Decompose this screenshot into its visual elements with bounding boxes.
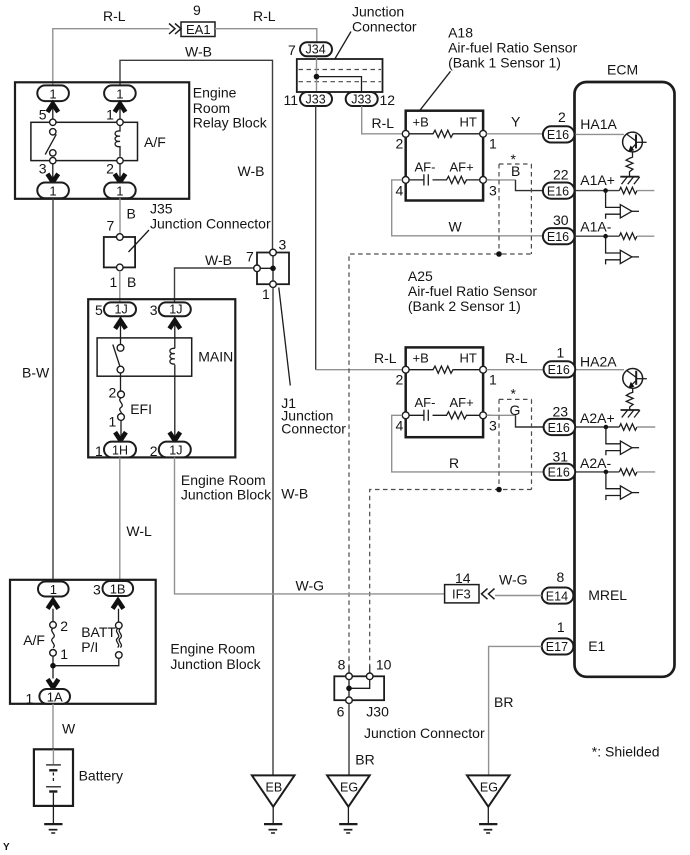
svg-text:AF-: AF- [415,160,436,175]
connector oval E17 pin 1 [542,638,574,654]
connector oval 1 (relay block top left) [37,85,69,101]
svg-text:E16: E16 [547,230,569,244]
label W battery wire [62,721,76,737]
svg-text:EFI: EFI [130,401,152,417]
svg-text:1: 1 [116,86,123,101]
J1 pin 3 [270,237,287,256]
svg-text:3: 3 [489,418,497,434]
svg-text:HT: HT [460,115,477,130]
connector oval 1J pin 5 [104,302,136,316]
wire stub oval1 to relay [52,101,54,122]
A18 AF+ label [450,160,474,175]
relay A/F value label [144,134,166,150]
J1 pin 7 [246,249,260,272]
J1 pin 1 [262,281,276,302]
svg-text:7: 7 [246,249,254,265]
pin 5 label [39,107,47,123]
wire from node to J33 pin 12 [317,77,362,92]
engine room junction block (bottom) outline [10,580,156,704]
leader line from J1 box to label [279,288,291,386]
pin 14 label of IF3 [455,570,471,586]
label HA1A [580,116,617,132]
fuse EFI [118,391,125,420]
resistor A2A+ [619,424,655,431]
arrow up pin 1 [115,104,126,112]
connector oval J34 [300,42,332,56]
resistor A1A+ [619,187,654,194]
fuse EFI label [130,401,152,417]
wire stub MAIN coil to 1J2 [174,365,176,442]
svg-text:P/I: P/I [81,639,98,655]
wire stub relay switch to bottom oval [52,161,54,183]
pin 3 label of 1B [93,582,101,598]
svg-text:1J: 1J [115,303,128,317]
relay A/F switch [45,119,56,164]
junction connector J1 box [257,253,289,285]
engine room junction block (middle) outline [88,299,235,457]
svg-text:E1: E1 [588,638,605,654]
svg-text:*: * [511,151,517,167]
ground triangle EB [252,775,295,806]
arrow down pin 2 [115,174,126,182]
connector oval 1B pin 3 [103,581,134,596]
svg-text:8: 8 [557,569,565,585]
svg-text:W-L: W-L [126,523,152,539]
svg-text:1H: 1H [112,444,128,458]
J30 pin 6 [337,697,353,720]
wire W from 1A to battery [52,704,54,750]
A25 sensor label [408,268,538,314]
svg-text:6: 6 [337,704,345,720]
arrow down above 1H [115,432,126,440]
battery label [79,768,123,784]
svg-text:J33: J33 [306,92,326,106]
op-amp A2A+ [606,427,639,455]
svg-text:4: 4 [396,183,404,199]
J35 pin 7 [107,218,124,241]
A25 AF- label [415,395,436,410]
arrow up below oval 1B [113,601,124,609]
connector IF3 with pin 14 [445,585,479,603]
svg-text:1: 1 [557,619,565,635]
svg-text:A18: A18 [448,25,473,41]
svg-text:EG: EG [480,781,498,795]
A18 AF- label [415,160,436,175]
wire stub 1J5 to MAIN [120,316,122,344]
svg-text:7: 7 [107,218,115,234]
engine room relay block outline [15,82,189,199]
svg-text:HA1A: HA1A [580,116,617,132]
wire W from A18 pin 4 to ECM A1A- [392,180,543,236]
fusible link BATT P/I label [81,624,116,655]
connector arrows at IF3 [482,589,495,600]
svg-text:1: 1 [489,372,497,388]
A18 pin 1 [480,130,497,151]
svg-text:J33: J33 [351,92,371,106]
svg-text:BR: BR [355,752,374,768]
A18 +B label [413,115,429,130]
svg-text:Y: Y [511,114,521,130]
label Engine Room Junction Block (bottom) [170,641,261,673]
svg-text:AF-: AF- [415,395,436,410]
A/F fuse pin 1 label [60,646,68,662]
pin 5 label [95,302,103,318]
svg-text:3: 3 [93,582,101,598]
svg-text:1: 1 [109,414,117,430]
wire A1A+ inside ECM with node [575,188,620,193]
svg-text:E16: E16 [547,184,569,198]
junction connector J34/J33 label [352,4,417,35]
connector oval 1 (bottom block top left) [38,582,69,597]
J30 label [366,704,389,720]
pin 8 number [557,569,565,585]
svg-text:Battery: Battery [79,768,123,784]
ground symbol below EG right [479,807,497,833]
pin 9 label of EA1 [193,2,201,18]
svg-text:E16: E16 [548,466,570,480]
svg-text:5: 5 [39,107,47,123]
svg-text:+B: +B [413,351,429,366]
pin 31 number [553,449,569,465]
wire G from A25 pin 3 to ECM A2A+ [487,415,544,427]
wire B-W from relay block to bottom junction block [52,198,54,581]
svg-text:11: 11 [284,92,299,108]
transistor HA2A [623,369,647,389]
svg-text:1: 1 [60,646,68,662]
svg-text:R-L: R-L [374,350,397,366]
relay MAIN switch [113,344,124,373]
arrow up below oval 1 [48,601,59,609]
junction node in J34 box [314,74,320,80]
pin 11 label [284,92,299,108]
resistor HA2A to ground [626,388,633,410]
battery cell symbol [46,749,61,806]
svg-text:E16: E16 [548,421,570,435]
A/F fuse pin 2 label [60,618,68,634]
label G shielded [510,402,521,418]
svg-text:R: R [449,455,459,471]
connector oval 1J pin 2 [159,442,191,458]
label B below J35 [127,274,136,290]
svg-text:3: 3 [39,161,47,177]
label W-B at J1 [205,252,232,268]
svg-text:EG: EG [340,781,358,795]
svg-text:Air-fuel Ratio Sensor: Air-fuel Ratio Sensor [448,40,578,56]
svg-text:IF3: IF3 [452,587,471,602]
J30 pin 8 [338,657,353,680]
relay MAIN box [97,338,192,376]
label B-W [22,365,50,381]
label MREL [588,587,627,603]
svg-text:E14: E14 [546,589,568,603]
resistor A1A- [619,233,654,240]
label R-L at HA2A [505,350,528,366]
label R-L at A18 input [372,115,395,131]
wire W-L from 1H to bottom junction block [119,457,121,581]
svg-text:Junction Connector: Junction Connector [150,216,271,232]
svg-text:4: 4 [396,418,404,434]
svg-text:3: 3 [279,237,287,253]
label W-B lower [281,486,308,502]
pin 7 label of J34 [288,42,296,58]
J1 internal wiring [257,253,273,285]
svg-text:W: W [449,219,463,235]
wire stub 1J3 to MAIN coil [174,316,176,348]
svg-text:BATT: BATT [81,624,116,640]
connector oval 1 (relay block top right) [104,85,136,101]
pin 23 number [553,404,569,420]
junction node in bottom block [50,663,56,669]
connector oval E16 pin 30 [543,228,575,244]
connector oval E16 pin 23 [544,419,576,435]
note shielded [592,744,660,760]
A25 pin 4 [396,412,410,434]
connector oval E16 pin 31 [544,464,576,480]
junction connector J35 box [104,237,135,267]
leader line to junction connector box [335,32,351,60]
label Y [511,114,521,130]
wire W-B from relay block pin 1 to junction connector J1 pin 3 [120,60,273,249]
label B shielded [511,163,520,179]
svg-text:HA2A: HA2A [580,354,617,370]
J1 label [281,395,346,437]
svg-text:R-L: R-L [103,8,126,24]
label R-L at A25 input [374,350,397,366]
leader line to J35 [129,230,150,252]
wire from J33 pin 11 down to A25 pin 2 [316,106,403,370]
svg-text:W-B: W-B [238,163,265,179]
relay A/F inner box [31,122,138,160]
svg-text:J35: J35 [150,201,173,217]
pin 2 label of 1J [150,443,158,459]
wire W-B from junction block 1J to J1 pin 7 [175,268,254,302]
A18 pin 2 [396,130,410,151]
connector oval 1H pin 1 [104,442,136,458]
A25 pin 3 [480,412,497,434]
junction connector J35 label [150,201,271,232]
wire BR from ECM E1 to ground EG right [489,646,542,775]
fuse A/F label [23,632,45,648]
relay MAIN coil [170,348,175,364]
connector arrows into EA1 [169,24,181,35]
label W-G right [499,572,528,588]
label Engine Room Junction Block (middle) [181,472,272,503]
svg-text:R-L: R-L [372,115,395,131]
svg-text:31: 31 [553,449,569,465]
svg-text:A/F: A/F [144,134,166,150]
pin 2 number [558,109,566,125]
wire stub EFI to 1H [120,420,122,441]
svg-text:A1A+: A1A+ [580,172,615,188]
EFI pin 1 label [109,414,117,430]
op-amp A1A+ [606,191,639,219]
resistor A2A- [619,469,655,476]
svg-text:W-B: W-B [205,252,232,268]
svg-text:30: 30 [553,212,569,228]
wire HA2A inside ECM [575,369,625,371]
label B above J35 [127,206,136,222]
arrow up below 1J5 [115,321,126,329]
svg-text:1A: 1A [47,689,63,704]
svg-text:W-B: W-B [185,44,212,60]
svg-text:7: 7 [288,42,296,58]
svg-text:1: 1 [106,107,114,123]
pin 1 number of E17 [557,619,565,635]
svg-text:J34: J34 [306,43,326,57]
svg-text:A2A-: A2A- [580,455,611,471]
svg-text:B-W: B-W [22,365,50,381]
arrow down above 1J2 [169,432,180,440]
svg-text:Junction Block: Junction Block [170,656,261,672]
J30 pin 10 [366,657,391,680]
svg-text:1: 1 [110,274,118,290]
pin 1 label of 1A [26,691,34,707]
pin 22 number [553,167,569,183]
label W-B top [185,44,212,60]
svg-text:Y: Y [3,842,10,853]
label BR at J30 [355,752,374,768]
transistor HA1A [623,132,647,152]
wire B from relay block to J35 [119,198,121,234]
wire HA1A inside ECM [575,133,625,135]
svg-text:1: 1 [49,86,56,101]
svg-text:1J: 1J [169,303,182,317]
pin 1 label of 1H [95,443,103,459]
svg-text:10: 10 [376,657,392,673]
wire stub A/F fuse column [52,609,54,679]
pin 12 label [380,92,396,108]
arrow down above 1A [48,679,59,687]
svg-text:Connector: Connector [281,421,346,437]
resistor HA1A to ground [626,152,633,177]
connector oval E14 pin 8 [542,588,574,604]
label A2A- [580,455,611,471]
A18 sensor capacitor and AF+ resistor row [409,174,491,185]
page marker Y [3,842,10,853]
ground triangle EG (right) [467,775,510,806]
ground below battery [44,806,62,833]
connector oval 1 (relay block bottom right) [104,183,136,199]
svg-text:Connector: Connector [352,19,417,35]
A18 sensor label [448,25,578,71]
label W-B vertical run [238,163,265,179]
svg-text:HT: HT [460,351,477,366]
A25 sensor capacitor and AF+ resistor row [409,410,491,421]
svg-text:R-L: R-L [253,8,276,24]
shield dashed box A25 [499,399,532,489]
arrow down pin 3 [47,174,58,182]
svg-text:G: G [510,402,521,418]
svg-text:Engine: Engine [193,85,237,101]
wire R from A25 pin 4 to ECM A2A- [392,415,544,472]
ECM box [575,82,675,677]
svg-text:2: 2 [396,372,404,388]
fusible link BATT P/I [116,622,123,658]
pin 30 number [553,212,569,228]
svg-text:E17: E17 [546,640,568,654]
label W-G left [296,578,325,594]
junction connector J34/J33 box [297,59,383,92]
svg-text:*: * [511,386,517,402]
wire Y from A18 HT to ECM HA1A [487,133,543,135]
J30 junction node [346,686,352,692]
svg-text:3: 3 [489,183,497,199]
shield junction node A18 [496,251,502,257]
label W [449,219,463,235]
label HA2A [580,354,617,370]
svg-text:1B: 1B [110,581,126,596]
wire BR from J30 pin 6 to ground EG [348,704,350,776]
arrow up below 1J3 [169,321,180,329]
svg-text:Relay Block: Relay Block [193,115,268,131]
J30 internal wiring [349,680,370,697]
svg-text:2: 2 [150,443,158,459]
wire through J34 connector [316,56,318,93]
wire R-L from EA1 to J34 [215,29,317,43]
A18 pin 4 [396,177,410,199]
junction connector J30 box [334,676,384,700]
connector oval E16 pin 2 [543,126,575,142]
svg-text:2: 2 [396,136,404,152]
svg-text:W: W [62,721,76,737]
svg-text:A1A-: A1A- [580,219,611,235]
A25 pin 2 [396,366,410,387]
svg-text:W-G: W-G [296,578,325,594]
ground symbol below EG middle [339,807,357,833]
J1 junction node [270,266,276,272]
connector EA1 [181,22,215,37]
shield ground run to J30 pin 8 [349,254,531,673]
svg-text:1: 1 [95,443,103,459]
shield dashed box A18 [499,164,531,254]
label E1 [588,638,605,654]
arrow up pin 5 [47,104,58,112]
pin 3 label [39,161,47,177]
connector oval J33 right [346,92,378,106]
wire W-G from 1J2 down and right to IF3 [175,457,445,594]
shield ground run to J30 pin 10 [370,490,532,673]
svg-text:AF+: AF+ [450,395,474,410]
svg-text:W-B: W-B [281,486,308,502]
svg-text:AF+: AF+ [450,160,474,175]
ECM label [607,62,638,78]
svg-text:Air-fuel Ratio Sensor: Air-fuel Ratio Sensor [408,283,538,299]
wire W-B from J1 pin 1 to ground EB [272,288,274,776]
svg-text:2: 2 [60,618,68,634]
asterisk A25 shield [511,386,517,402]
svg-text:A25: A25 [408,268,433,284]
wire stub MAIN switch to EFI [120,373,122,391]
fuse A/F [50,622,57,656]
connector oval J33 left [300,92,332,106]
pin 1 number [557,345,565,361]
svg-text:1: 1 [262,286,270,302]
connector oval 1J pin 3 [159,302,191,316]
wire stub oval2 to relay coil [119,101,121,122]
wire B from J35 to junction block [119,271,121,303]
label A1A+ [580,172,615,188]
svg-text:14: 14 [455,570,471,586]
svg-text:W-G: W-G [499,572,528,588]
svg-text:B: B [127,206,136,222]
svg-text:A/F: A/F [23,632,45,648]
svg-text:9: 9 [193,2,201,18]
label Engine Room Relay Block [193,85,268,131]
svg-text:Junction Block: Junction Block [181,487,272,503]
svg-text:+B: +B [413,115,429,130]
A18 pin 3 [480,177,497,199]
ground symbol below EB [264,807,282,833]
